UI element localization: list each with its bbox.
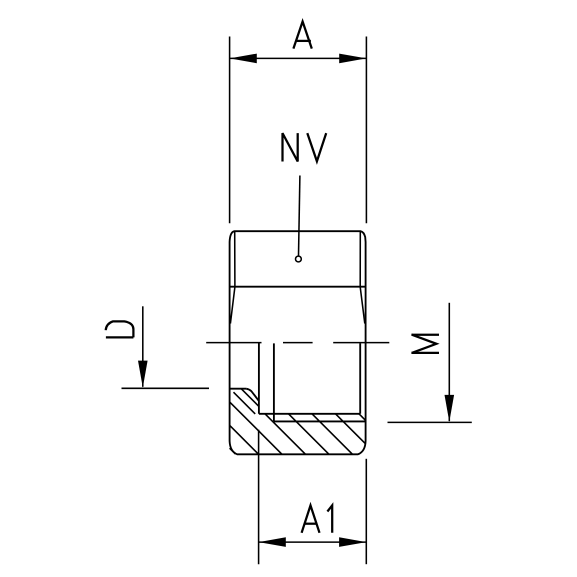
NV leader dot bbox=[296, 256, 302, 262]
bore right line bbox=[359, 343, 361, 414]
bore bottom line bbox=[259, 413, 360, 415]
dimension A1 label bbox=[302, 505, 333, 532]
thread relief line bbox=[234, 392, 256, 414]
thread entry chamfer bbox=[246, 389, 259, 401]
hatching bbox=[230, 389, 366, 455]
reference line middle segment bbox=[283, 342, 313, 344]
label NV bbox=[283, 133, 327, 161]
thread bottom line bbox=[274, 420, 366, 422]
dimension M label bbox=[411, 335, 439, 353]
dimension A right arrowhead bbox=[339, 54, 366, 64]
right facet line bbox=[360, 232, 365, 324]
dimension M arrow line bbox=[448, 303, 450, 421]
dimension A label bbox=[293, 22, 311, 49]
dimension D arrow line bbox=[142, 306, 144, 387]
dimension A1 right arrowhead bbox=[339, 537, 366, 547]
reference line right segment bbox=[333, 342, 389, 344]
dimension A left arrowhead bbox=[230, 54, 257, 64]
body outline bbox=[230, 231, 366, 454]
reference line left segment bbox=[206, 342, 261, 344]
dimension A extension lines bbox=[229, 37, 231, 224]
dimension M arrowhead bbox=[445, 395, 455, 422]
dimension M target line bbox=[388, 421, 472, 423]
dimension D arrowhead bbox=[138, 361, 148, 388]
hex chamfer line bbox=[230, 286, 365, 288]
dimension A1 line bbox=[259, 541, 367, 543]
left facet line bbox=[230, 232, 235, 324]
NV leader line bbox=[299, 176, 300, 256]
bore left minor line bbox=[273, 343, 275, 421]
dimension A line bbox=[230, 57, 367, 59]
dimension D target line bbox=[122, 387, 210, 389]
dimension A1 left arrowhead bbox=[259, 537, 286, 547]
counterbore ledge bbox=[230, 388, 247, 390]
dimension A1 extension lines bbox=[258, 430, 260, 565]
bore left major line bbox=[258, 343, 260, 414]
dimension D label bbox=[106, 321, 134, 337]
